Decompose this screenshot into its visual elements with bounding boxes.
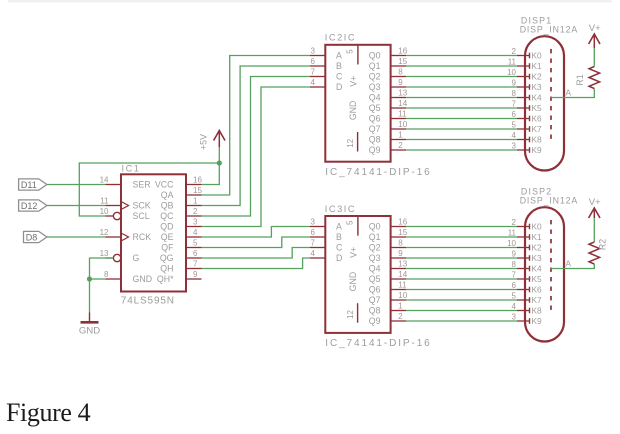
supply V+ symbol lower — [589, 197, 602, 218]
wire R2 to V+ — [593, 218, 595, 242]
wire +5V symbol stem — [218, 147, 220, 163]
wire IC3 Q3 to DISP2 K3 — [406, 257, 517, 259]
ground GND symbol — [79, 313, 100, 337]
IC2 pin 4 D — [310, 78, 342, 92]
wire IC2 Q0 to DISP1 K0 — [406, 55, 517, 57]
svg-text:6: 6 — [311, 228, 316, 237]
svg-text:Q1: Q1 — [369, 61, 381, 71]
DISP1 pin 2 K0 — [512, 47, 542, 61]
svg-text:5: 5 — [193, 239, 198, 248]
svg-text:11: 11 — [398, 281, 407, 290]
svg-text:K9: K9 — [532, 316, 543, 326]
wire IC2 Q6 to DISP1 K6 — [406, 118, 517, 120]
svg-text:10: 10 — [507, 239, 516, 248]
junction ground net — [87, 276, 92, 281]
wire IC1 QE to IC3 pin A — [202, 227, 311, 238]
svg-text:K7: K7 — [532, 295, 543, 305]
IC1 pin 12 RCK — [100, 228, 152, 242]
svg-text:13: 13 — [100, 249, 109, 258]
svg-text:B: B — [336, 61, 342, 71]
svg-text:Q7: Q7 — [369, 295, 381, 305]
wire IC2 Q7 to DISP1 K7 — [406, 128, 517, 130]
wire IC2 Q5 to DISP1 K5 — [406, 107, 517, 109]
IC2 pin 5 V+ internal — [345, 45, 358, 87]
svg-text:K1: K1 — [532, 61, 543, 71]
svg-text:1: 1 — [398, 131, 403, 140]
svg-text:10: 10 — [507, 68, 516, 77]
DISP2 pin 10 K2 — [507, 239, 542, 253]
svg-text:10: 10 — [398, 291, 407, 300]
wire IC2 Q4 to DISP1 K4 — [406, 97, 517, 99]
svg-text:Q2: Q2 — [369, 243, 381, 253]
svg-text:K5: K5 — [532, 274, 543, 284]
svg-text:4: 4 — [512, 302, 517, 311]
svg-text:2: 2 — [512, 47, 517, 56]
svg-text:4: 4 — [512, 131, 517, 140]
wire IC1 G to ground net — [90, 258, 114, 279]
svg-text:8: 8 — [512, 89, 517, 98]
wire D11 to IC1 SER — [47, 184, 106, 186]
DISP2 pin 7 K5 — [512, 271, 542, 285]
IC3 pin 11 Q6 — [369, 281, 407, 295]
IC3 pin 7 C — [310, 239, 343, 253]
IC3 pin 5 V+ internal — [345, 216, 358, 258]
svg-text:Q2: Q2 — [369, 72, 381, 82]
svg-text:9: 9 — [512, 79, 517, 88]
wire IC3 Q1 to DISP2 K1 — [406, 236, 517, 238]
svg-text:Q3: Q3 — [369, 82, 381, 92]
svg-text:11: 11 — [398, 110, 407, 119]
svg-text:14: 14 — [398, 99, 407, 108]
svg-text:1: 1 — [193, 197, 198, 206]
svg-text:1: 1 — [398, 302, 403, 311]
resistor R2 — [589, 239, 607, 264]
svg-text:Figure 4: Figure 4 — [6, 398, 91, 427]
svg-text:A: A — [336, 222, 342, 232]
svg-text:9: 9 — [512, 250, 517, 259]
svg-text:9: 9 — [193, 270, 198, 279]
svg-text:9: 9 — [398, 78, 403, 87]
DISP1 pin 9 K3 — [512, 79, 542, 93]
IC2 pin 6 B — [310, 57, 342, 71]
svg-text:74LS595N: 74LS595N — [121, 295, 175, 306]
IC1 pin 14 SER — [100, 176, 151, 190]
svg-text:V+: V+ — [349, 247, 359, 258]
caption Figure 4 — [6, 398, 91, 427]
svg-text:13: 13 — [398, 260, 407, 269]
svg-text:G: G — [133, 253, 140, 263]
DISP2 pin 11 K1 — [508, 229, 542, 243]
IC1 pin 8 GND — [104, 270, 152, 284]
DISP2 pin 9 K3 — [512, 250, 542, 264]
wire IC1 QA to IC2 pin A — [202, 56, 311, 196]
wire IC1 GND pin to ground net — [90, 278, 106, 280]
wire IC2 Q9 to DISP1 K9 — [406, 149, 517, 151]
svg-text:4: 4 — [193, 228, 198, 237]
resistor R1 — [575, 67, 599, 89]
svg-text:5: 5 — [512, 292, 517, 301]
svg-text:SCL: SCL — [133, 211, 150, 221]
IC1 pin 9 QH* — [157, 270, 202, 284]
IC1 pin 11 SCK — [100, 197, 151, 211]
svg-text:QE: QE — [161, 232, 174, 242]
svg-text:11: 11 — [508, 58, 517, 67]
IC2 pin 3 A — [310, 47, 342, 61]
svg-text:4: 4 — [311, 249, 316, 258]
DISP1 pin 11 K1 — [508, 58, 542, 72]
IC2 pin 15 Q1 — [369, 57, 408, 71]
DISP1 pin 8 K4 — [512, 89, 542, 103]
svg-text:3: 3 — [193, 218, 198, 227]
page top border — [8, 0, 612, 2]
svg-text:7: 7 — [512, 100, 517, 109]
svg-text:K3: K3 — [532, 253, 543, 263]
svg-text:DISP_IN12A: DISP_IN12A — [520, 195, 578, 205]
wire DISP2 A to R2 — [551, 264, 594, 269]
svg-text:K3: K3 — [532, 82, 543, 92]
svg-text:QF: QF — [161, 243, 174, 253]
svg-text:15: 15 — [398, 57, 407, 66]
DISP2 pin A anode — [566, 259, 572, 269]
svg-text:V+: V+ — [589, 23, 601, 34]
svg-text:SCK: SCK — [133, 201, 151, 211]
wire ground net down — [89, 279, 91, 313]
svg-text:Q9: Q9 — [369, 145, 381, 155]
svg-text:C: C — [336, 243, 343, 253]
IC3 pin 12 GND internal — [346, 272, 358, 323]
IC3 pin 8 Q2 — [369, 239, 406, 253]
wire IC3 Q4 to DISP2 K4 — [406, 268, 517, 270]
supply V+ symbol upper — [589, 23, 602, 48]
DISP1 pin A anode — [566, 88, 572, 98]
svg-text:D8: D8 — [26, 232, 38, 242]
svg-text:QB: QB — [161, 201, 174, 211]
svg-text:GND: GND — [133, 274, 153, 284]
IC1 pin 10 SCL — [100, 207, 150, 221]
DISP2 pin 4 K8 — [512, 302, 542, 316]
svg-text:13: 13 — [398, 89, 407, 98]
IC2 pin 7 C — [310, 68, 343, 82]
svg-text:5: 5 — [345, 49, 354, 54]
svg-text:RCK: RCK — [133, 232, 152, 242]
junction +5V net — [217, 160, 222, 165]
svg-text:Q8: Q8 — [369, 135, 381, 145]
svg-text:3: 3 — [512, 313, 517, 322]
svg-text:16: 16 — [398, 47, 407, 56]
svg-text:QA: QA — [161, 190, 174, 200]
svg-text:K5: K5 — [532, 103, 543, 113]
svg-text:4: 4 — [311, 78, 316, 87]
IC1 pin 15 QA — [161, 186, 203, 200]
svg-text:12: 12 — [346, 138, 355, 147]
IC3 pin 2 Q9 — [369, 312, 406, 326]
IC1 pin 16 VCC — [155, 176, 203, 190]
op IC1 74LS595N shift register — [121, 163, 186, 306]
svg-text:B: B — [336, 232, 342, 242]
svg-text:6: 6 — [311, 57, 316, 66]
svg-text:Q0: Q0 — [369, 222, 381, 232]
DISP1 anode grid dashed line — [550, 49, 552, 142]
wire IC2 Q3 to DISP1 K3 — [406, 86, 517, 88]
IC1 pin 6 QG — [160, 249, 202, 263]
svg-text:IC3IC: IC3IC — [325, 204, 356, 214]
svg-text:2: 2 — [193, 207, 198, 216]
IC2 pin 1 Q8 — [369, 131, 406, 145]
wire +5V net to IC1 VCC — [202, 163, 220, 185]
svg-text:+5V: +5V — [199, 134, 209, 150]
svg-text:K9: K9 — [532, 145, 543, 155]
svg-text:15: 15 — [193, 186, 202, 195]
svg-text:7: 7 — [311, 239, 316, 248]
IC3 pin 13 Q4 — [369, 260, 408, 274]
svg-text:6: 6 — [512, 110, 517, 119]
IC2 pin 10 Q7 — [369, 120, 408, 134]
IC2 pin 8 Q2 — [369, 68, 406, 82]
svg-text:IC_74141-DIP-16: IC_74141-DIP-16 — [325, 338, 431, 349]
svg-text:Q4: Q4 — [369, 93, 381, 103]
svg-text:C: C — [336, 72, 343, 82]
wire D12 to IC1 SCK — [47, 205, 106, 207]
svg-text:K6: K6 — [532, 285, 543, 295]
svg-text:2: 2 — [398, 312, 403, 321]
wire R1 to V+ — [593, 48, 595, 67]
IC3 pin 3 A — [310, 218, 342, 232]
IC3 pin 16 Q0 — [369, 218, 408, 232]
svg-text:A: A — [566, 259, 572, 269]
IC2 pin 13 Q4 — [369, 89, 408, 103]
DISP1 pin 4 K8 — [512, 131, 542, 145]
wire IC3 Q5 to DISP2 K5 — [406, 278, 517, 280]
IC3 pin 9 Q3 — [369, 249, 406, 263]
svg-text:D12: D12 — [21, 201, 38, 211]
DISP1 pin 5 K7 — [512, 121, 542, 135]
DISP2 pin 8 K4 — [512, 260, 542, 274]
svg-text:9: 9 — [398, 249, 403, 258]
wire IC1 QB to IC2 pin B — [202, 66, 311, 206]
svg-text:16: 16 — [193, 176, 202, 185]
svg-text:IC2IC: IC2IC — [325, 33, 356, 43]
svg-text:K4: K4 — [532, 93, 543, 103]
IC3 pin 6 B — [310, 228, 342, 242]
svg-text:11: 11 — [508, 229, 517, 238]
svg-text:QH*: QH* — [157, 274, 174, 284]
DISP1 pin 6 K6 — [512, 110, 542, 124]
svg-text:7: 7 — [311, 68, 316, 77]
svg-text:GND: GND — [348, 101, 358, 121]
tube DISP2 DISP_IN12A nixie — [520, 187, 578, 342]
svg-text:SER: SER — [133, 180, 151, 190]
op IC3 IC_74141-DIP-16 driver — [325, 204, 432, 349]
svg-text:7: 7 — [193, 260, 198, 269]
IC2 pin 2 Q9 — [369, 141, 406, 155]
svg-text:2: 2 — [512, 218, 517, 227]
svg-text:K4: K4 — [532, 264, 543, 274]
IC3 pin 10 Q7 — [369, 291, 408, 305]
svg-text:GND: GND — [348, 272, 358, 292]
svg-text:5: 5 — [345, 220, 354, 225]
svg-text:Q7: Q7 — [369, 124, 381, 134]
wire IC3 Q7 to DISP2 K7 — [406, 299, 517, 301]
svg-text:8: 8 — [398, 68, 403, 77]
IC2 pin 14 Q5 — [369, 99, 408, 113]
svg-text:11: 11 — [100, 197, 109, 206]
svg-text:3: 3 — [512, 142, 517, 151]
svg-text:K2: K2 — [532, 72, 543, 82]
svg-text:K8: K8 — [532, 306, 543, 316]
wire IC3 Q8 to DISP2 K8 — [406, 310, 517, 312]
svg-text:Q9: Q9 — [369, 316, 381, 326]
svg-text:14: 14 — [100, 176, 109, 185]
svg-text:A: A — [336, 51, 342, 61]
svg-text:Q3: Q3 — [369, 253, 381, 263]
svg-text:15: 15 — [398, 228, 407, 237]
svg-text:8: 8 — [512, 260, 517, 269]
svg-text:D11: D11 — [21, 180, 37, 190]
svg-text:VCC: VCC — [155, 180, 174, 190]
wire IC3 Q0 to DISP2 K0 — [406, 226, 517, 228]
svg-text:16: 16 — [398, 218, 407, 227]
svg-text:D: D — [336, 82, 342, 92]
wire IC3 Q2 to DISP2 K2 — [406, 247, 517, 249]
svg-text:Q1: Q1 — [369, 232, 381, 242]
wire IC1 QG to IC3 pin C — [202, 248, 311, 259]
IC2 pin 16 Q0 — [369, 47, 408, 61]
svg-text:6: 6 — [193, 249, 198, 258]
svg-text:6: 6 — [512, 281, 517, 290]
DISP1 pin 7 K5 — [512, 100, 542, 114]
svg-text:V+: V+ — [349, 76, 359, 87]
svg-text:A: A — [566, 88, 572, 98]
DISP2 pin 3 K9 — [512, 313, 542, 327]
tube DISP1 DISP_IN12A nixie — [520, 16, 578, 171]
DISP2 pin 6 K6 — [512, 281, 542, 295]
wire D8 to IC1 RCK — [47, 236, 106, 238]
svg-text:10: 10 — [398, 120, 407, 129]
wire IC1 QD to IC2 pin D — [202, 87, 311, 227]
wire IC3 Q6 to DISP2 K6 — [406, 289, 517, 291]
svg-text:10: 10 — [100, 207, 109, 216]
svg-text:Q6: Q6 — [369, 285, 381, 295]
IC1 pin 13 G — [100, 249, 140, 263]
IC2 pin 11 Q6 — [369, 110, 407, 124]
wire IC1 QC to IC2 pin C — [202, 77, 311, 217]
IC1 pin 4 QE — [161, 228, 202, 242]
supply +5V symbol — [199, 131, 226, 150]
wire +5V net to IC1 SCL — [79, 163, 219, 216]
svg-text:3: 3 — [311, 218, 316, 227]
IC3 pin 14 Q5 — [369, 270, 408, 284]
svg-text:QH: QH — [160, 264, 173, 274]
svg-text:V+: V+ — [589, 197, 601, 208]
svg-text:K2: K2 — [532, 243, 543, 253]
IC3 pin 1 Q8 — [369, 302, 406, 316]
svg-text:Q0: Q0 — [369, 51, 381, 61]
IC1 pin 5 QF — [161, 239, 201, 253]
DISP1 pin 10 K2 — [507, 68, 542, 82]
svg-text:K6: K6 — [532, 114, 543, 124]
svg-text:Q6: Q6 — [369, 114, 381, 124]
IC1 pin 3 QD — [160, 218, 201, 232]
wire IC1 QH to IC3 pin D — [202, 258, 311, 269]
op IC2 IC_74141-DIP-16 driver — [325, 33, 432, 178]
svg-text:K1: K1 — [532, 232, 543, 242]
svg-text:14: 14 — [398, 270, 407, 279]
svg-text:QC: QC — [160, 211, 174, 221]
wire IC2 Q2 to DISP1 K2 — [406, 76, 517, 78]
IC3 pin 15 Q1 — [369, 228, 408, 242]
wire IC3 Q9 to DISP2 K9 — [406, 320, 517, 322]
svg-text:12: 12 — [346, 310, 355, 319]
svg-text:K0: K0 — [532, 51, 543, 61]
DISP2 anode grid dashed line — [550, 220, 552, 313]
wire IC2 Q8 to DISP1 K8 — [406, 139, 517, 141]
svg-text:5: 5 — [512, 121, 517, 130]
svg-text:Q5: Q5 — [369, 274, 381, 284]
svg-text:IC1: IC1 — [122, 163, 141, 173]
svg-text:Q8: Q8 — [369, 306, 381, 316]
IC2 pin 12 GND internal — [346, 101, 358, 152]
svg-text:3: 3 — [311, 47, 316, 56]
svg-text:IC_74141-DIP-16: IC_74141-DIP-16 — [325, 167, 431, 178]
IC1 pin 2 QC — [160, 207, 201, 221]
wire IC1 QF to IC3 pin B — [202, 237, 311, 248]
wire DISP1 A to R1 — [551, 89, 594, 98]
svg-text:Q5: Q5 — [369, 103, 381, 113]
IC2 pin 9 Q3 — [369, 78, 406, 92]
svg-text:7: 7 — [512, 271, 517, 280]
DISP1 pin 3 K9 — [512, 142, 542, 156]
wire IC2 Q1 to DISP1 K1 — [406, 65, 517, 67]
svg-text:GND: GND — [79, 326, 100, 337]
IC1 pin 1 QB — [161, 197, 202, 211]
svg-text:DISP_IN12A: DISP_IN12A — [520, 24, 578, 34]
svg-text:R1: R1 — [575, 74, 585, 85]
svg-text:8: 8 — [398, 239, 403, 248]
node D11 input flag — [19, 179, 47, 190]
svg-text:K7: K7 — [532, 124, 543, 134]
svg-text:D: D — [336, 253, 342, 263]
node D8 input flag — [24, 231, 47, 242]
DISP2 pin 5 K7 — [512, 292, 542, 306]
IC1 pin 7 QH — [160, 260, 201, 274]
svg-text:8: 8 — [104, 270, 109, 279]
svg-text:12: 12 — [100, 228, 109, 237]
IC3 pin 4 D — [310, 249, 342, 263]
node D12 input flag — [19, 200, 47, 211]
svg-text:QD: QD — [160, 222, 173, 232]
svg-text:K0: K0 — [532, 222, 543, 232]
DISP2 pin 2 K0 — [512, 218, 542, 232]
svg-text:Q4: Q4 — [369, 264, 381, 274]
svg-text:R2: R2 — [597, 239, 607, 250]
svg-text:QG: QG — [160, 253, 174, 263]
svg-text:K8: K8 — [532, 135, 543, 145]
svg-text:2: 2 — [398, 141, 403, 150]
